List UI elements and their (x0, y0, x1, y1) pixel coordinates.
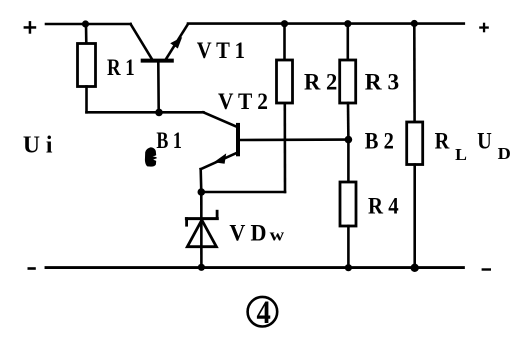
svg-text:R 1: R 1 (107, 55, 135, 80)
wire bottom rail (46, 266, 463, 269)
transistor VT2 (201, 112, 349, 169)
wire R2 bottom vertical (283, 103, 286, 192)
svg-text:V D: V D (229, 221, 266, 246)
wire VT1 base (157, 62, 160, 112)
wire B1 horizontal (R1 bottom to VT2 collector) (87, 111, 204, 114)
node B2 dot (345, 136, 353, 144)
node dot R4 bottom (345, 264, 352, 271)
node B1 dot (155, 109, 163, 117)
ink blob artifact near B1 (145, 147, 157, 166)
plus sign left (24, 21, 37, 34)
minus sign left (28, 267, 36, 270)
resistor R2 (277, 24, 293, 103)
svg-text:U: U (477, 128, 492, 153)
resistor R3 (340, 24, 356, 140)
label VDw (229, 221, 285, 246)
node dot R2 top (281, 20, 288, 27)
label RL (435, 128, 467, 164)
node dot emitter junction (198, 188, 206, 196)
wire VT2 emitter down (199, 169, 202, 192)
svg-text:V T 2: V T 2 (218, 89, 268, 114)
resistor R1 (78, 24, 96, 112)
plus sign right (479, 23, 489, 33)
svg-text:B 1: B 1 (156, 128, 181, 153)
svg-text:D: D (498, 144, 511, 163)
svg-text:w: w (270, 226, 285, 245)
wire top rail right segment (188, 22, 464, 25)
node dot RL top (411, 20, 418, 27)
svg-text:V T 1: V T 1 (197, 38, 245, 63)
svg-text:R 3: R 3 (365, 70, 399, 95)
node dot RL bottom (411, 264, 419, 272)
node dot R3 top (344, 20, 351, 27)
node dot R1 top (82, 20, 89, 27)
svg-text:B 2: B 2 (365, 129, 394, 154)
resistor RL (407, 24, 423, 268)
svg-text:R 4: R 4 (368, 194, 399, 219)
transistor VT1 (131, 24, 188, 61)
svg-text:4: 4 (257, 295, 271, 331)
svg-text:R 2: R 2 (304, 70, 337, 95)
node dot zener bottom (198, 264, 205, 271)
label UD (477, 128, 511, 163)
wire top rail left segment (46, 23, 131, 26)
resistor R4 (340, 140, 356, 268)
svg-text:R: R (435, 128, 450, 153)
svg-text:L: L (455, 145, 467, 164)
figure number circled 4 (248, 295, 278, 331)
wire emitter junction to R2 bottom (horizontal) (201, 191, 285, 194)
minus sign right (482, 268, 491, 270)
svg-text:U i: U i (23, 133, 53, 159)
zener diode VDw (186, 192, 217, 268)
